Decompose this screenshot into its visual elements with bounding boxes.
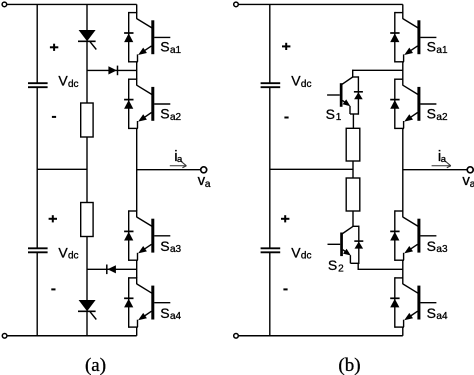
svg-text:a: a: [205, 179, 211, 190]
svg-text:a1: a1: [436, 45, 448, 56]
svg-text:a1: a1: [170, 45, 182, 56]
svg-text:a4: a4: [170, 311, 182, 322]
svg-text:a3: a3: [436, 244, 448, 255]
svg-text:S: S: [326, 106, 335, 122]
svg-text:S: S: [160, 106, 169, 122]
svg-text:V: V: [58, 244, 68, 260]
svg-text:a2: a2: [436, 112, 448, 123]
svg-text:S: S: [427, 305, 436, 321]
svg-text:a2: a2: [170, 112, 182, 123]
svg-text:S: S: [427, 106, 436, 122]
svg-text:(a): (a): [85, 355, 106, 375]
svg-text:V: V: [58, 73, 68, 89]
svg-text:S: S: [160, 305, 169, 321]
svg-text:dc: dc: [301, 251, 312, 262]
svg-text:a: a: [441, 154, 447, 165]
svg-text:S: S: [427, 238, 436, 254]
svg-text:S: S: [160, 238, 169, 254]
svg-text:dc: dc: [301, 79, 312, 90]
svg-text:2: 2: [338, 263, 344, 274]
svg-text:(b): (b): [338, 355, 360, 375]
svg-text:dc: dc: [68, 251, 79, 262]
svg-text:S: S: [427, 39, 436, 55]
svg-text:S: S: [160, 39, 169, 55]
svg-text:S: S: [328, 257, 337, 273]
svg-text:V: V: [291, 244, 301, 260]
svg-text:V: V: [291, 73, 301, 89]
svg-text:a4: a4: [436, 311, 448, 322]
svg-text:a: a: [470, 179, 474, 190]
svg-text:dc: dc: [68, 79, 79, 90]
svg-text:a: a: [177, 154, 183, 165]
svg-text:1: 1: [336, 112, 342, 123]
svg-text:a3: a3: [170, 244, 182, 255]
